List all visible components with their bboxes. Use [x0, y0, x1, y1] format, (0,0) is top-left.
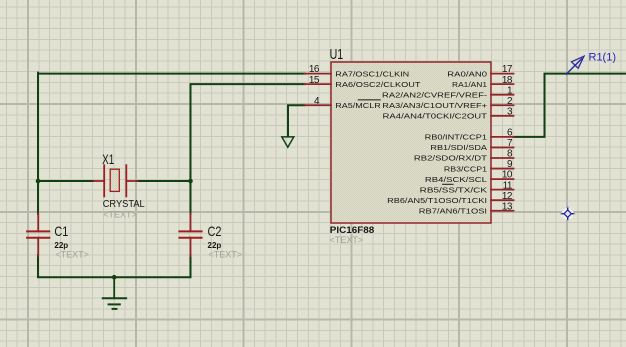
- svg-text:RB5/SS/TX/CK: RB5/SS/TX/CK: [420, 185, 487, 194]
- capacitor C1 top lead: [37, 214, 39, 232]
- pin name RA5/MCLR: [335, 101, 381, 110]
- pin number 12: [502, 191, 513, 202]
- X1 TEXT placeholder: [103, 209, 137, 219]
- svg-text:RB3/CCP1: RB3/CCP1: [444, 164, 487, 173]
- svg-text:X1: X1: [102, 151, 114, 167]
- svg-text:C2: C2: [208, 223, 222, 239]
- net pointer arrow to R1(1): [566, 56, 584, 74]
- pin name RB4/SCK/SCL: [425, 175, 487, 184]
- pin name RA7/OSC1/CLKIN: [335, 69, 409, 78]
- pin name RA6/OSC2/CLKOUT: [335, 80, 421, 89]
- svg-text:RA3/AN3/C1OUT/VREF+: RA3/AN3/C1OUT/VREF+: [382, 101, 487, 110]
- svg-text:15: 15: [309, 75, 320, 86]
- pin number 18: [502, 75, 513, 86]
- svg-text:11: 11: [503, 180, 513, 191]
- svg-text:RB1/SDI/SDA: RB1/SDI/SDA: [430, 143, 487, 152]
- crystal X1 plates: [104, 165, 126, 196]
- pin 2 stub (right): [491, 104, 514, 106]
- C2 value label 22p: [208, 241, 222, 250]
- pin number 6: [507, 128, 513, 139]
- pin number 4: [314, 96, 320, 107]
- pin number 9: [507, 159, 513, 170]
- wire C1 bottom to ground rail: [38, 255, 191, 277]
- ground symbol: [103, 277, 126, 309]
- pin name RB0/INT/CCP1: [425, 133, 487, 142]
- pin 18 stub (right): [491, 83, 514, 85]
- wire OSC2 net: pin15 to crystal right / C2: [191, 84, 305, 214]
- svg-text:RA5/MCLR: RA5/MCLR: [335, 101, 381, 110]
- capacitor C2 top lead: [190, 214, 192, 232]
- svg-text:RA0/AN0: RA0/AN0: [447, 69, 487, 78]
- pin number 2: [507, 96, 513, 107]
- C1 value label 22p: [54, 241, 68, 250]
- pin 9 stub (right): [491, 168, 514, 170]
- wire crystal right lead connection: [137, 180, 191, 182]
- U1 reference label: [330, 46, 344, 63]
- wire MCLR pin4 stub to arrow terminal: [288, 105, 305, 136]
- node junction at X1 left / C1: [36, 179, 41, 184]
- capacitor C2 plates: [179, 231, 201, 237]
- pin 17 stub (right): [491, 73, 514, 75]
- pin name RA2/AN2/CVREF/VREF-: [382, 90, 488, 99]
- pin number 17: [502, 64, 513, 75]
- svg-text:RB6/AN5/T1OSO/T1CKI: RB6/AN5/T1OSO/T1CKI: [387, 196, 487, 205]
- pin name RA3/AN3/C1OUT/VREF+: [382, 101, 487, 110]
- pin 12 stub (right): [491, 199, 514, 201]
- U1 TEXT placeholder: [330, 235, 364, 245]
- pin name RA1/AN1: [452, 80, 487, 89]
- svg-text:16: 16: [309, 64, 320, 75]
- pin name RB7/AN6/T1OSI: [419, 206, 487, 215]
- pin name RA4/AN4/T0CKI/C2OUT: [383, 112, 488, 121]
- pin 4 stub (left): [305, 104, 332, 106]
- pin 13 stub (right): [491, 210, 514, 212]
- pin 6 stub (right): [491, 136, 514, 138]
- U1 value label PIC16F88: [330, 225, 375, 235]
- svg-text:12: 12: [502, 191, 513, 202]
- pin number 15: [309, 75, 320, 86]
- svg-text:<TEXT>: <TEXT>: [209, 249, 243, 259]
- terminal open arrow on MCLR wire: [282, 137, 294, 147]
- node label R1(1): [589, 52, 617, 64]
- capacitor C1 plates: [27, 231, 49, 237]
- svg-text:RB2/SDO/RX/DT: RB2/SDO/RX/DT: [414, 154, 488, 163]
- pin 10 stub (right): [491, 178, 514, 180]
- pin name RB1/SDI/SDA: [430, 143, 487, 152]
- svg-text:RA7/OSC1/CLKIN: RA7/OSC1/CLKIN: [335, 69, 409, 78]
- pin number 16: [309, 64, 320, 75]
- svg-text:<TEXT>: <TEXT>: [103, 209, 137, 219]
- C1 reference label: [54, 223, 68, 239]
- svg-text:18: 18: [502, 75, 513, 86]
- X1 value label CRYSTAL: [103, 199, 145, 210]
- C2 TEXT placeholder: [209, 249, 243, 259]
- svg-text:U1: U1: [330, 46, 344, 63]
- svg-text:RA4/AN4/T0CKI/C2OUT: RA4/AN4/T0CKI/C2OUT: [383, 112, 488, 121]
- svg-text:RB4/SCK/SCL: RB4/SCK/SCL: [425, 175, 487, 184]
- pin number 13: [502, 201, 513, 212]
- wire crystal left lead connection: [37, 180, 94, 182]
- capacitor C2 bottom lead: [190, 238, 192, 256]
- origin marker: [560, 206, 575, 221]
- node junction at ground rail: [112, 275, 117, 280]
- svg-text:RA2/AN2/CVREF/VREF-: RA2/AN2/CVREF/VREF-: [382, 90, 488, 99]
- pin 3 stub (right): [491, 115, 514, 117]
- svg-text:PIC16F88: PIC16F88: [330, 225, 375, 235]
- pin name RB2/SDO/RX/DT: [414, 154, 488, 163]
- X1 reference label: [102, 151, 114, 167]
- C1 TEXT placeholder: [55, 249, 89, 259]
- crystal X1 left lead: [94, 180, 105, 182]
- pin number 1: [507, 85, 513, 96]
- capacitor C1 bottom lead: [37, 238, 39, 256]
- svg-text:<TEXT>: <TEXT>: [55, 249, 89, 259]
- svg-text:RA6/OSC2/CLKOUT: RA6/OSC2/CLKOUT: [335, 80, 421, 89]
- pin number 7: [507, 138, 513, 149]
- pin 11 stub (right): [491, 189, 514, 191]
- pin number 10: [502, 170, 513, 181]
- svg-text:R1(1): R1(1): [589, 52, 617, 64]
- svg-text:RB7/AN6/T1OSI: RB7/AN6/T1OSI: [419, 206, 487, 215]
- pin number 11: [503, 180, 513, 191]
- pin 1 stub (right): [491, 94, 514, 96]
- svg-text:<TEXT>: <TEXT>: [330, 235, 364, 245]
- node junction at X1 right / C2: [188, 179, 193, 184]
- wire OSC1 net: pin16 to crystal left / C1: [38, 73, 305, 214]
- pin number 3: [507, 106, 513, 117]
- svg-text:RB0/INT/CCP1: RB0/INT/CCP1: [425, 133, 487, 142]
- svg-text:10: 10: [502, 170, 513, 181]
- pin name RA0/AN0: [447, 69, 487, 78]
- pin number 8: [507, 149, 513, 160]
- svg-text:C1: C1: [54, 223, 68, 239]
- overline on MCLR: [358, 99, 381, 101]
- op-amp U1 PIC16F88 body: [331, 62, 491, 223]
- pin 8 stub (right): [491, 157, 514, 159]
- pin name RB3/CCP1: [444, 164, 487, 173]
- pin 16 stub (left): [305, 73, 332, 75]
- C2 reference label: [208, 223, 222, 239]
- svg-text:17: 17: [502, 64, 513, 75]
- crystal X1 body: [110, 169, 119, 191]
- pin name RB5/SS/TX/CK: [420, 185, 487, 194]
- pin 15 stub (left): [305, 83, 332, 85]
- svg-text:RA1/AN1: RA1/AN1: [452, 80, 487, 89]
- pin 7 stub (right): [491, 146, 514, 148]
- crystal X1 right lead: [126, 180, 137, 182]
- pin name RB6/AN5/T1OSO/T1CKI: [387, 196, 487, 205]
- wire RB0 pin6 to R1 net, exits right edge: [514, 74, 626, 137]
- overline on SS: [442, 183, 454, 185]
- svg-text:13: 13: [502, 201, 513, 212]
